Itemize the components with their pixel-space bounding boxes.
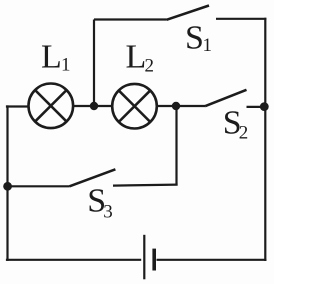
wire bottom-right horizontal [157,259,267,261]
battery long plate (positive) [143,235,145,279]
node junction on right wire at S2 [260,102,269,111]
lamp L1 [29,84,74,129]
svg-text:1: 1 [61,55,71,76]
svg-text:L: L [41,39,62,76]
switch S1 [167,6,210,20]
wire vertical branch from junction B down [175,106,177,186]
wire S2 fixed-contact stub [247,106,265,108]
wire horizontal branch to S3 [113,185,178,186]
label L2 [126,39,155,77]
wire S3 left to junction D [8,185,70,187]
wire right vertical [264,18,266,261]
battery short plate (negative) [152,249,156,271]
lamp L2 [112,84,157,129]
switch S3 [70,169,116,186]
svg-text:2: 2 [239,123,249,144]
label S2 [223,104,249,143]
wire between lamps [74,105,113,107]
switch S2 [205,90,247,106]
label S1 [185,19,212,56]
label S3 [87,183,113,223]
label L1 [41,39,71,76]
node junction right of L2 [172,102,180,110]
node junction on left wire at S3 [3,182,12,191]
wire vertical from top to junction [93,20,95,107]
svg-text:S: S [185,19,204,56]
wire bottom-left horizontal [6,259,141,261]
wire left vertical [6,105,8,261]
svg-text:L: L [126,39,147,76]
node junction between L1 and L2 [90,102,98,110]
svg-text:2: 2 [145,56,155,77]
wire L2 to switch S2 [157,105,205,107]
wire top-right horizontal [216,18,266,20]
svg-text:3: 3 [103,202,113,223]
svg-text:1: 1 [203,35,213,56]
wire top-left horizontal [94,18,167,20]
wire left stub to lamp L1 [6,105,28,107]
